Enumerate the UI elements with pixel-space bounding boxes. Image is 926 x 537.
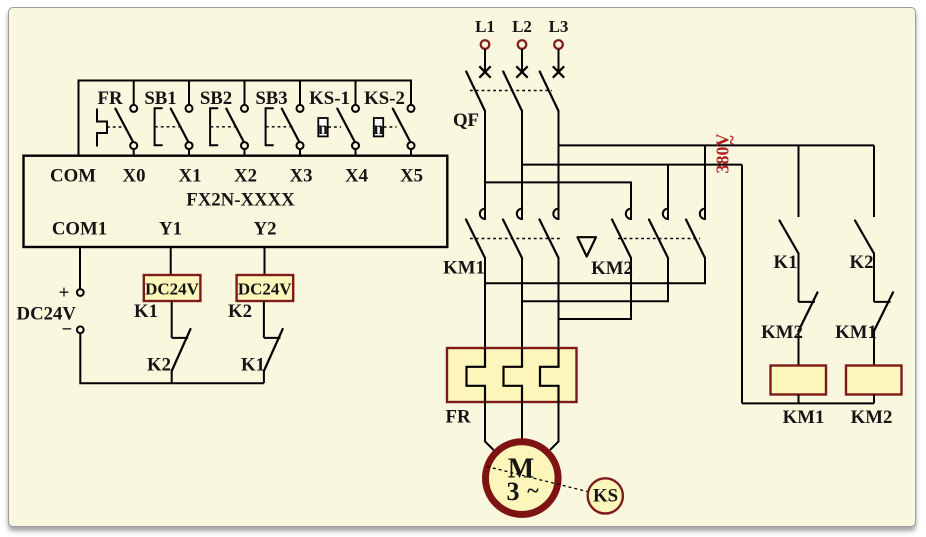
svg-text:L2: L2 <box>512 17 532 36</box>
speed switch KS-1 top terminal <box>352 105 359 112</box>
wire minus to bottom bus <box>80 333 264 383</box>
wire control bottom bus <box>742 402 874 404</box>
svg-text:L3: L3 <box>549 17 569 36</box>
node L1 terminal <box>481 40 490 49</box>
svg-text:COM: COM <box>50 166 96 187</box>
wire K2 contact to bus <box>171 371 173 383</box>
svg-text:QF: QF <box>453 110 479 131</box>
svg-text:K1: K1 <box>134 301 158 322</box>
wire drop X0 <box>133 81 135 105</box>
breaker QF dashed link <box>470 90 552 92</box>
contactor KM1 pole3 blade <box>540 220 559 259</box>
svg-text:DC24V: DC24V <box>238 280 293 299</box>
svg-text:n: n <box>373 118 383 138</box>
contact K2 NC blade <box>172 329 191 371</box>
breaker QF pole3 blade <box>540 72 559 112</box>
wire KM1 contact to coil KM2 <box>873 331 875 366</box>
wire feed line1 from L3 <box>559 144 875 146</box>
wire Y2 to coil K2 <box>264 247 266 275</box>
breaker QF pole2 cross <box>516 66 527 77</box>
pushbutton SB2 actuator <box>210 108 218 145</box>
pushbutton SB2 top terminal <box>241 105 248 112</box>
contact KM1 NC seat stub <box>874 301 891 303</box>
wire COM1 to plus terminal <box>79 247 81 289</box>
breaker QF pole1 blade <box>466 72 485 112</box>
wire SB2 to X2 <box>244 149 246 156</box>
contact FR bottom terminal <box>130 142 137 149</box>
svg-text:COM1: COM1 <box>52 219 107 240</box>
wire crossover line B <box>522 258 668 301</box>
PLC box FX2N <box>24 156 448 247</box>
wire coil KM2 to bus <box>873 395 875 404</box>
thermal relay FR heater3 <box>540 348 559 402</box>
contact K2 NO blade <box>855 221 874 254</box>
pushbutton SB2 dashed link <box>211 126 235 128</box>
svg-text:+: + <box>59 283 70 304</box>
contact FR dashed link <box>107 126 124 128</box>
wire L2 to QF <box>521 49 523 72</box>
svg-text:X5: X5 <box>400 166 423 187</box>
contact K1 NC blade <box>264 329 283 371</box>
wire FR to motor phase B <box>521 402 523 439</box>
wire input top bus <box>79 81 412 156</box>
wire phase C QF to KM1 <box>558 111 560 220</box>
thermal relay FR heater1 <box>467 348 486 402</box>
svg-text:X2: X2 <box>234 166 257 187</box>
svg-text:SB3: SB3 <box>255 88 287 109</box>
thermal relay FR heater2 <box>504 348 523 402</box>
wire SB1 to X1 <box>188 149 190 156</box>
wire K2 to KM1 contact <box>873 254 875 302</box>
contact K1 NO blade <box>780 221 799 254</box>
svg-text:~: ~ <box>527 478 539 503</box>
node plus terminal <box>77 289 84 296</box>
contactor KM2 pole3 hook <box>700 209 705 219</box>
pushbutton SB1 bottom terminal <box>186 142 193 149</box>
svg-text:FR: FR <box>445 407 470 428</box>
pushbutton SB3 dashed link <box>266 126 290 128</box>
pushbutton SB1 top terminal <box>186 105 193 112</box>
svg-text:K2: K2 <box>850 252 874 273</box>
wire K2 coil to K1 contact <box>263 301 265 338</box>
relay coil K2 box DC24V <box>237 275 294 301</box>
wire FR to X0 <box>133 149 135 156</box>
svg-text:K2: K2 <box>147 355 171 376</box>
svg-text:X1: X1 <box>179 166 202 187</box>
svg-text:DC24V: DC24V <box>145 280 200 299</box>
svg-text:L1: L1 <box>475 17 495 36</box>
pushbutton SB1 dashed link <box>155 126 179 128</box>
wire phase B KM1 to FR <box>521 258 523 348</box>
wire L3 to QF <box>558 49 560 72</box>
svg-text:SB2: SB2 <box>200 88 232 109</box>
svg-text:KM2: KM2 <box>591 258 633 279</box>
speed switch KS-2 box <box>374 118 383 136</box>
wire FR to motor phase C <box>550 402 559 450</box>
svg-text:K1: K1 <box>241 355 265 376</box>
svg-text:KM1: KM1 <box>783 407 825 428</box>
wire K1 coil to K2 contact <box>171 301 173 338</box>
wire SB3 to X3 <box>299 149 301 156</box>
wire FR to motor phase A <box>485 402 494 450</box>
wire drop X1 <box>188 81 190 105</box>
contactor KM2 pole3 blade <box>686 220 705 259</box>
contact FR thermal trip symbol <box>97 109 107 147</box>
wire KM2 pole2 riser <box>667 165 669 220</box>
wire coil KM1 to bus <box>798 395 800 404</box>
contactor KM1 pole3 hook <box>553 209 558 219</box>
wire phase C KM1 to FR <box>558 258 560 348</box>
motor M circle <box>486 442 559 515</box>
svg-text:Y2: Y2 <box>254 219 277 240</box>
pushbutton SB2 bottom terminal <box>241 142 248 149</box>
contactor KM2 pole2 blade <box>649 220 668 259</box>
svg-text:Y1: Y1 <box>159 219 182 240</box>
speed switch KS-2 blade <box>393 109 411 144</box>
pushbutton SB1 actuator <box>155 108 163 145</box>
wire drop X2 <box>244 81 246 105</box>
pushbutton SB3 bottom terminal <box>297 142 304 149</box>
svg-text:X3: X3 <box>290 166 313 187</box>
svg-text:KS: KS <box>593 486 618 507</box>
breaker QF pole1 cross <box>479 66 490 77</box>
speed sensor KS circle <box>588 478 623 513</box>
dashed shaft link motor to KS <box>487 467 589 493</box>
contactor KM2 dashed link <box>618 238 700 240</box>
contactor KM1 pole2 hook <box>517 209 522 219</box>
wire phase B QF to KM1 <box>521 111 523 220</box>
node minus terminal <box>77 326 84 333</box>
contact FR top terminal <box>130 105 137 112</box>
svg-text:FR: FR <box>97 88 122 109</box>
svg-text:K2: K2 <box>228 301 252 322</box>
svg-text:KM2: KM2 <box>761 322 803 343</box>
wire crossover line A <box>485 258 705 283</box>
wire phase A KM1 to FR <box>484 258 486 348</box>
svg-text:KS-2: KS-2 <box>364 88 405 109</box>
pushbutton SB3 top terminal <box>297 105 304 112</box>
wire Y1 to coil K1 <box>170 247 172 275</box>
wire feed line2 from L2 <box>522 164 742 166</box>
pushbutton SB3 actuator <box>266 108 274 145</box>
svg-text:KS-1: KS-1 <box>309 88 350 109</box>
speed switch KS-2 top terminal <box>408 105 415 112</box>
wire KM2 pole3 riser <box>704 145 706 220</box>
node L3 terminal <box>554 40 563 49</box>
speed switch KS-1 blade <box>337 109 355 144</box>
svg-text:FX2N-XXXX: FX2N-XXXX <box>186 190 295 211</box>
svg-text:−: − <box>62 319 73 340</box>
contact KM2 NC blade <box>799 292 818 331</box>
wire control left drop <box>741 165 743 404</box>
contact FR blade <box>115 109 133 144</box>
speed switch KS-1 dashed link <box>328 126 341 128</box>
svg-text:3: 3 <box>507 477 520 506</box>
breaker QF pole2 blade <box>503 72 522 112</box>
wire K1 to KM2 contact <box>798 254 800 302</box>
thermal relay FR box <box>447 348 577 402</box>
contact K2 NC seat stub <box>172 337 189 339</box>
contactor KM1 dashed link <box>470 238 560 240</box>
breaker QF pole3 cross <box>553 66 564 77</box>
wire K2 branch drop <box>873 145 875 217</box>
contactor coil KM1 box <box>771 366 827 395</box>
wire KS-2 to X5 <box>410 149 412 156</box>
contactor KM2 pole1 blade <box>612 220 631 259</box>
speed switch KS-2 dashed link <box>384 126 397 128</box>
svg-text:KM1: KM1 <box>835 322 877 343</box>
pushbutton SB2 blade <box>226 109 244 144</box>
speed switch KS-2 bottom terminal <box>408 142 415 149</box>
wire crossover line C <box>559 258 632 319</box>
speed switch KS-1 bottom terminal <box>352 142 359 149</box>
wire phase A QF to KM1 <box>484 111 486 220</box>
contact KM2 NC seat stub <box>799 301 816 303</box>
svg-text:X4: X4 <box>345 166 369 187</box>
contactor KM1 pole2 blade <box>503 220 522 259</box>
symbol triangle marker <box>578 237 597 256</box>
wire K1 branch drop <box>798 145 800 217</box>
svg-text:X0: X0 <box>123 166 146 187</box>
wire KS-1 to X4 <box>355 149 357 156</box>
contactor KM1 pole1 hook <box>480 209 485 219</box>
speed switch KS-1 box <box>318 118 327 136</box>
svg-text:KM2: KM2 <box>851 407 893 428</box>
wire L1 to QF <box>484 49 486 72</box>
contactor KM2 pole2 hook <box>663 209 668 219</box>
node L2 terminal <box>518 40 527 49</box>
relay coil K1 box DC24V <box>144 275 201 301</box>
pushbutton SB1 blade <box>171 109 189 144</box>
wire KM2 contact to coil KM1 <box>798 331 800 366</box>
svg-text:~: ~ <box>722 135 742 145</box>
wire feed line3 from L1 <box>485 182 631 220</box>
contactor KM2 pole1 hook <box>626 209 631 219</box>
svg-text:SB1: SB1 <box>144 88 176 109</box>
svg-text:KM1: KM1 <box>443 258 485 279</box>
wire drop X3 <box>299 81 301 105</box>
wire drop X4 <box>355 81 357 105</box>
svg-text:n: n <box>318 118 328 138</box>
contact K1 NC seat stub <box>264 337 281 339</box>
wire K1 contact to bus <box>263 371 265 383</box>
pushbutton SB3 blade <box>282 109 300 144</box>
contactor KM1 pole1 blade <box>466 220 485 259</box>
svg-text:K1: K1 <box>774 252 798 273</box>
contact KM1 NC blade <box>874 292 893 331</box>
contactor coil KM2 box <box>846 366 902 395</box>
